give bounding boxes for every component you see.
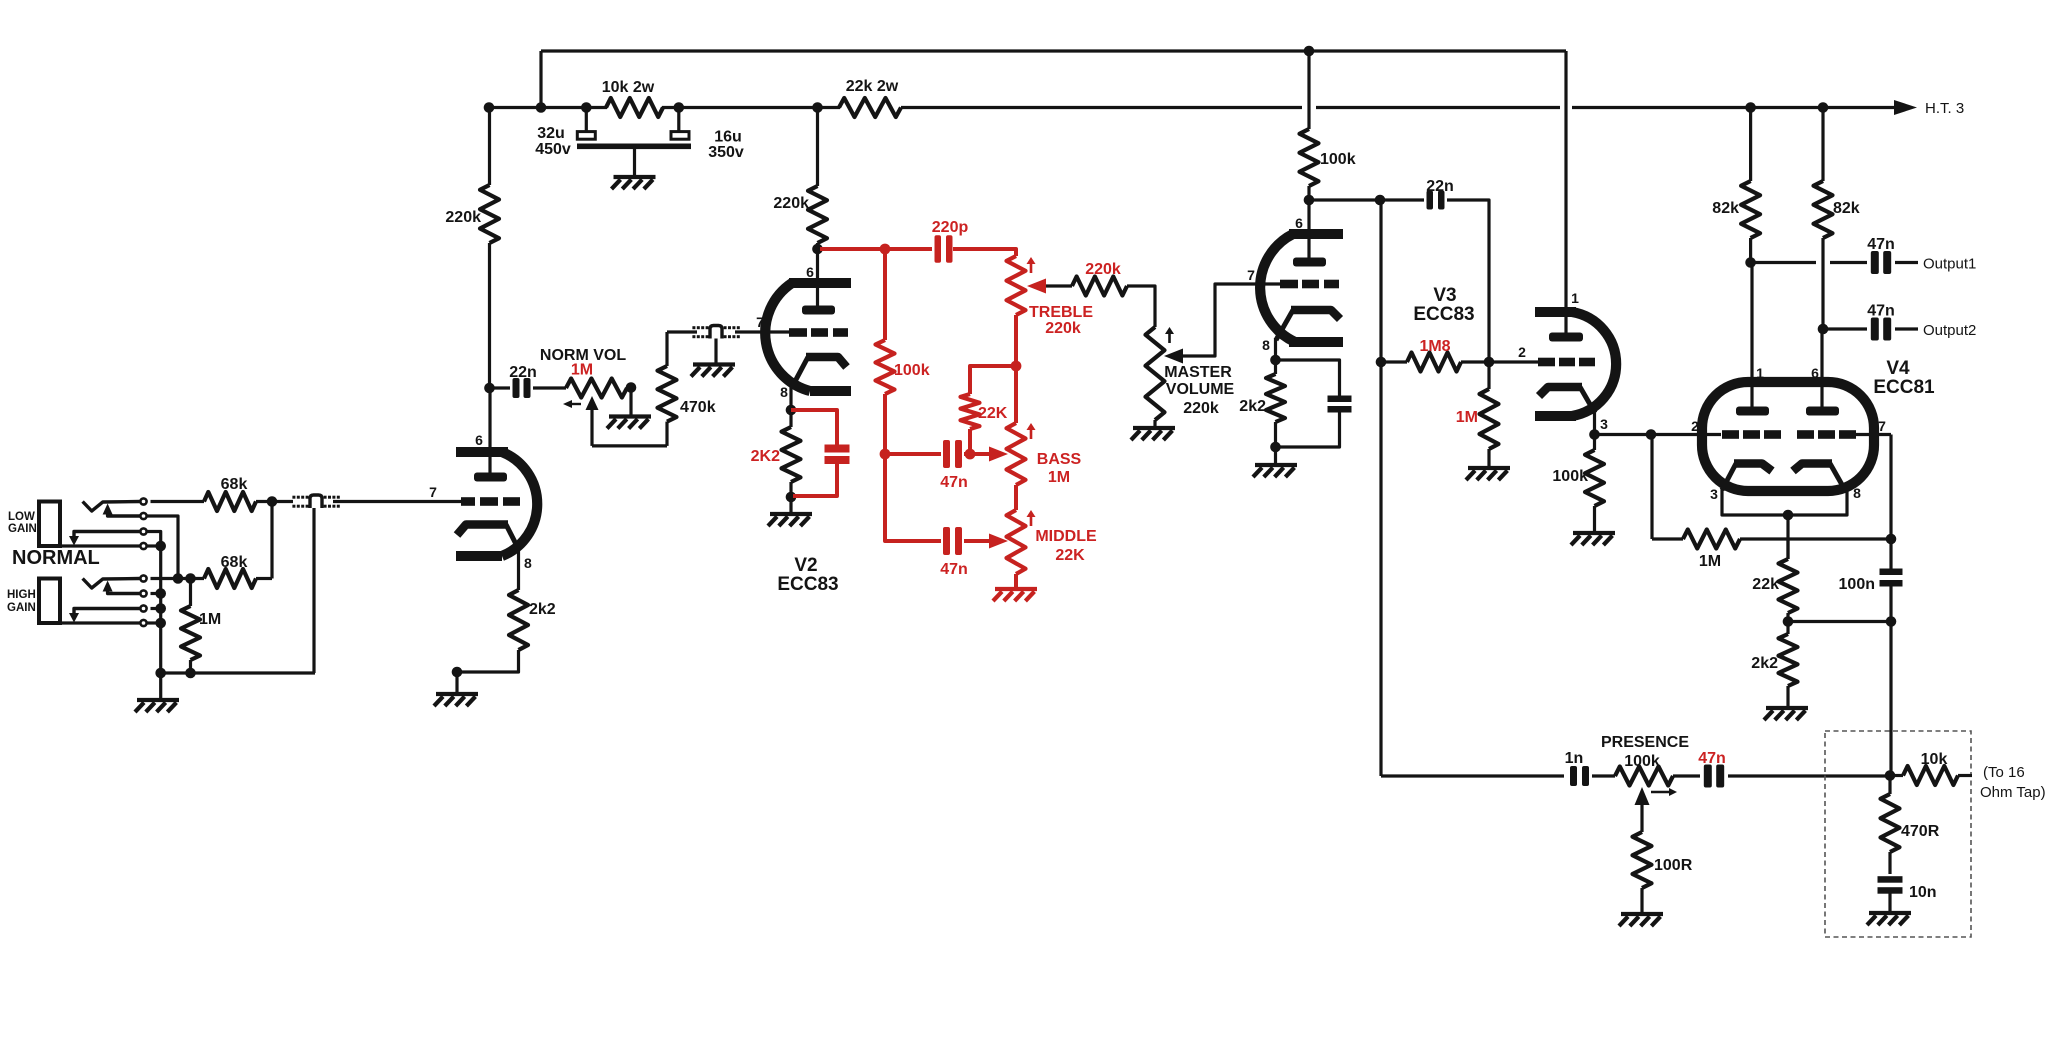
potentiometer PRESENCE 100k (1615, 767, 1673, 786)
wire (high tip row) (151, 577, 205, 580)
svg-text:2k2: 2k2 (529, 601, 556, 618)
jack make arrow (low) (103, 504, 113, 515)
svg-text:220k: 220k (445, 209, 481, 226)
treble wiper wire (1046, 284, 1072, 287)
node (high shunt bus) (155, 603, 166, 614)
svg-text:470k: 470k (680, 399, 716, 416)
resistor 470k (grid leak) (658, 366, 677, 422)
wire (low shunt down) (148, 532, 161, 547)
wire (47n to middle arrow) (964, 539, 990, 543)
node (32u tap) (581, 102, 592, 113)
svg-text:100k: 100k (1320, 151, 1356, 168)
node (sleeve bus top) (155, 541, 166, 552)
svg-text:450v: 450v (535, 141, 571, 158)
jack shunt arrow (high) (74, 609, 140, 614)
wire (10n ground lead) (1888, 891, 1891, 913)
svg-text:68k: 68k (221, 476, 248, 493)
potentiometer BASS 1M (1007, 423, 1026, 485)
resistor 100k (tone) (876, 340, 895, 394)
wire (cathode bracket) (1722, 489, 1847, 515)
resistor 100R (1633, 832, 1652, 888)
triode V3b envelope (1535, 312, 1576, 416)
V4 anode 2 (1806, 407, 1839, 416)
terminal (low sleeve) (140, 543, 146, 549)
jack tip spring (high) (83, 579, 140, 589)
svg-text:PRESENCE: PRESENCE (1601, 734, 1689, 751)
svg-text:3: 3 (1600, 416, 1608, 432)
wire (220k to MV pot) (1127, 286, 1155, 327)
jack body LOW GAIN (39, 502, 60, 547)
svg-text:6: 6 (475, 432, 483, 448)
resistor 82k (output1) (1741, 181, 1760, 238)
svg-text:350v: 350v (708, 144, 744, 161)
dashed box (speaker tap network) (1825, 731, 1971, 937)
wire (wiper to 470k) (592, 444, 667, 447)
wire (22K bottom) (968, 429, 972, 454)
wire (V3a anode to 22n) (1309, 198, 1380, 201)
node (treble/bass node) (1011, 361, 1022, 372)
wire (low sleeve bus) (148, 544, 161, 547)
svg-text:22k 2w: 22k 2w (846, 78, 899, 95)
wire (V3a bypass bottom) (1276, 412, 1340, 447)
wire (82k left) (1749, 108, 1752, 182)
svg-text:6: 6 (806, 264, 814, 280)
svg-text:22K: 22K (978, 405, 1008, 422)
svg-text:100R: 100R (1654, 857, 1693, 874)
V3a grid (1280, 280, 1298, 289)
svg-text:2K2: 2K2 (751, 448, 780, 465)
wire (output1 lead) (1751, 261, 1816, 264)
svg-text:1M8: 1M8 (1419, 338, 1450, 355)
node (high make bus) (155, 588, 166, 599)
ground (filter caps) (614, 175, 656, 179)
capacitor 100n (1880, 569, 1903, 576)
wire (H.T. rail) (489, 106, 607, 109)
bass wiper arrow (989, 447, 1008, 462)
wire (47n to bass arrow) (964, 452, 990, 456)
wire (mv wiper to V3a grid) (1183, 284, 1280, 356)
V2 anode (802, 306, 835, 315)
resistor 470R (1888, 776, 1891, 795)
svg-text:47n: 47n (1867, 236, 1895, 253)
terminal (low make) (140, 513, 146, 519)
svg-text:100k: 100k (894, 362, 930, 379)
wire (220p to treble) (953, 249, 1016, 256)
V2 cathode (806, 357, 847, 367)
svg-text:ECC83: ECC83 (777, 574, 838, 595)
wire (V3b to V4 grid) (1595, 433, 1722, 436)
resistor 2k2 (V3a cathode) (1274, 360, 1277, 374)
wire (to 220p) (885, 247, 932, 251)
terminal (high sleeve) (140, 620, 146, 626)
wire (node to 22K) (970, 366, 1016, 394)
node (1M to grid2 rail) (1886, 534, 1897, 545)
node (22k/220k junction) (812, 102, 823, 113)
wire (treble to bass pot) (1014, 366, 1018, 423)
svg-text:7: 7 (1247, 267, 1255, 283)
capacitor 16u 350v (677, 108, 680, 133)
svg-text:GAIN: GAIN (8, 523, 37, 535)
svg-text:V2: V2 (794, 555, 817, 576)
wire (47n bass lead) (885, 452, 941, 456)
terminal (high tip) (140, 575, 146, 581)
wire (grid2 rail down) (1889, 585, 1892, 776)
wire (47n to tap node) (1728, 774, 1889, 777)
svg-text:22n: 22n (509, 364, 537, 381)
ground (input jacks) (137, 698, 179, 702)
wire (output2 tail) (1895, 327, 1918, 330)
wire (V3b anode lead) (1564, 51, 1567, 334)
wire (link2 ground drop) (714, 339, 717, 365)
wire (100k to 47n node) (883, 394, 887, 454)
node (22k bottom) (1783, 616, 1794, 627)
ground (presence) (1621, 912, 1663, 916)
svg-text:470R: 470R (1901, 823, 1940, 840)
ground (V2 grid link) (693, 362, 735, 366)
svg-text:220k: 220k (773, 195, 809, 212)
wire (high shunt) (151, 607, 162, 610)
ground (V1 cathode) (436, 692, 478, 696)
resistor 100k (V3b cathode) (1593, 435, 1596, 451)
V3b cathode (1539, 387, 1582, 396)
svg-text:Output2: Output2 (1923, 322, 1976, 339)
wire (filter cap ground lead) (633, 149, 636, 177)
svg-text:32u: 32u (537, 125, 565, 142)
wire (V1 cathode lead) (517, 544, 520, 590)
svg-text:6: 6 (1811, 365, 1819, 381)
ground (V3b cathode) (1573, 531, 1615, 535)
arrow (mv cw) (1168, 330, 1171, 343)
jack sleeve wire (low) (60, 544, 140, 547)
V4 envelope (1702, 382, 1874, 491)
wire (left rail to middle 47n) (885, 454, 941, 541)
wire (NFB rail) (1379, 200, 1382, 776)
terminal (low tip) (140, 498, 146, 504)
svg-text:HIGH: HIGH (7, 589, 36, 601)
wire (V4 grid right) (1841, 433, 1891, 436)
svg-text:100n: 100n (1839, 576, 1875, 593)
jack body HIGH GAIN (39, 579, 60, 624)
wire (V3b cathode lead) (1593, 411, 1596, 435)
ground (norm vol) (609, 414, 651, 418)
svg-text:3: 3 (1710, 486, 1718, 502)
svg-text:1M: 1M (1699, 553, 1721, 570)
wire (V3b grid lead) (1489, 360, 1538, 363)
svg-text:220k: 220k (1085, 261, 1121, 278)
svg-text:10k: 10k (1921, 751, 1948, 768)
node (bass 47n node) (880, 449, 891, 460)
wire (V3a cathode lead) (1274, 338, 1277, 360)
svg-text:NORMAL: NORMAL (12, 547, 100, 569)
svg-text:47n: 47n (1867, 303, 1895, 320)
svg-text:V3: V3 (1433, 285, 1456, 306)
resistor 82k (output2) (1814, 181, 1833, 238)
svg-text:6: 6 (1295, 215, 1303, 231)
node (high tip / low make) (173, 573, 184, 584)
svg-text:10k 2w: 10k 2w (602, 79, 655, 96)
wire (V1 cathode to ground) (457, 650, 519, 694)
wire (link to V1 grid) (333, 500, 461, 503)
terminal (high shunt) (140, 605, 146, 611)
jack sleeve wire (high) (60, 621, 140, 624)
resistor 10k (NFB) (1890, 774, 1903, 777)
svg-text:MIDDLE: MIDDLE (1035, 528, 1097, 545)
resistor 220k (treble to MV) (1072, 277, 1127, 296)
wire (V4 anode 2 lead) (1820, 329, 1823, 411)
capacitor 220p (935, 235, 942, 263)
node (100n bottom rail) (1886, 616, 1897, 627)
node (1M top) (185, 573, 196, 584)
wire (bass to middle) (1014, 485, 1018, 510)
svg-text:82k: 82k (1712, 200, 1739, 217)
wire (low make to high tip) (148, 516, 179, 579)
wire (470k top) (665, 332, 668, 366)
treble wiper arrow (1027, 279, 1046, 294)
svg-text:TREBLE: TREBLE (1029, 304, 1093, 321)
V1 cathode (457, 525, 508, 536)
ground (V3a cathode) (1255, 463, 1297, 467)
svg-text:ECC83: ECC83 (1413, 304, 1474, 325)
svg-text:100k: 100k (1624, 753, 1660, 770)
terminal (high make) (140, 590, 146, 596)
capacitor 22n (coupling) (513, 378, 520, 398)
node (V2 cathode top) (786, 405, 797, 416)
ground (V3b grid leak) (1468, 466, 1510, 470)
node (16u tap) (674, 102, 685, 113)
presence wiper arrow (1635, 787, 1650, 805)
node (82k right top) (1818, 102, 1829, 113)
ground (master volume) (1133, 426, 1175, 430)
terminal (low shunt) (140, 528, 146, 534)
resistor 2k2 (V1 cathode) (509, 590, 528, 650)
capacitor V3a bypass (1328, 396, 1352, 403)
node (V3a anode) (1304, 195, 1315, 206)
svg-text:MASTER: MASTER (1164, 364, 1232, 381)
wire (high make) (151, 592, 162, 595)
svg-text:(To 16: (To 16 (1983, 764, 2025, 781)
triode V2 envelope (789, 283, 851, 391)
resistor 10k 2w (606, 98, 663, 117)
node (V2 cathode bottom) (786, 492, 797, 503)
node (norm vol cold end) (626, 382, 637, 393)
svg-text:1M: 1M (199, 611, 221, 628)
wire (V3a plate) (1307, 51, 1310, 129)
arrow ccw hint (566, 403, 581, 405)
wire (low tip row) (151, 500, 205, 503)
node (rail / top feed) (536, 102, 547, 113)
link (V2 grid) (706, 326, 709, 329)
wire (pot to ground dot) (627, 386, 631, 389)
svg-text:VOLUME: VOLUME (1166, 381, 1235, 398)
wire (middle to ground) (1014, 574, 1018, 589)
mv wiper arrow (1164, 349, 1183, 364)
svg-text:2k2: 2k2 (1239, 398, 1266, 415)
wire (V2 bypass top) (791, 410, 837, 446)
V4 cathode 2 (1793, 464, 1832, 472)
svg-text:Ohm Tap): Ohm Tap) (1980, 784, 2046, 801)
resistor 1M (input) (189, 579, 192, 607)
V4 cathode 1 (1734, 464, 1772, 472)
wire (22n to grid node) (1447, 200, 1489, 362)
triode V3a envelope (1289, 234, 1343, 342)
wire (left tone rail top) (883, 249, 887, 340)
resistor 2k2 (V4 bias lower) (1786, 622, 1789, 635)
svg-text:47n: 47n (940, 561, 968, 578)
resistor 22k 2w (839, 98, 901, 117)
wire (high sleeve) (148, 621, 162, 624)
middle wiper arrow (989, 534, 1008, 549)
V3a cathode (1291, 310, 1340, 319)
resistor 68k (low input) (204, 492, 256, 511)
svg-text:220k: 220k (1045, 320, 1081, 337)
node (82k left top) (1745, 102, 1756, 113)
V4 anode 1 (1736, 407, 1769, 416)
wire (22n lead) (490, 386, 511, 389)
svg-text:22K: 22K (1055, 547, 1085, 564)
arrow (middle cw) (1030, 513, 1033, 526)
svg-text:10n: 10n (1909, 884, 1937, 901)
node (NFB tap) (1885, 770, 1896, 781)
node (cathode bracket center) (1783, 510, 1794, 521)
wire (22k to 100n rail) (1788, 620, 1891, 623)
svg-text:1: 1 (1756, 365, 1764, 381)
wire (presence to 47n) (1673, 774, 1700, 777)
wire (V2 plate chain) (816, 108, 819, 187)
svg-text:V4: V4 (1886, 358, 1910, 379)
V4 grid (1722, 430, 1739, 439)
wire (norm vol ground lead) (629, 388, 632, 417)
wire (1n to presence) (1592, 774, 1615, 777)
wire (V2 cathode ground lead) (789, 497, 792, 514)
node (V3b grid node) (1484, 357, 1495, 368)
capacitor 47n (output2) (1871, 318, 1879, 341)
svg-text:220k: 220k (1183, 400, 1219, 417)
svg-text:1: 1 (1571, 290, 1579, 306)
V1 anode (474, 473, 507, 482)
V2 grid (789, 328, 807, 337)
jack shunt arrow (low) (74, 532, 140, 537)
node (bus 1M) (185, 668, 196, 679)
node (V3a cathode top) (1270, 355, 1281, 366)
wire (V2 bypass bottom) (793, 463, 837, 496)
triode V1 envelope (456, 452, 508, 556)
wire (link to V2 grid) (735, 330, 789, 333)
wire (tone feed) (820, 247, 885, 251)
wire (output1 tail) (1895, 261, 1918, 264)
svg-text:BASS: BASS (1037, 451, 1082, 468)
capacitor 47n (NFB) (1704, 765, 1712, 788)
svg-text:2k2: 2k2 (1751, 655, 1778, 672)
wire (82k right) (1821, 108, 1824, 182)
svg-text:1M: 1M (571, 362, 593, 379)
arrow (bass cw) (1030, 426, 1033, 439)
capacitor 47n (middle) (943, 527, 950, 555)
capacitor V2 cathode bypass (825, 445, 850, 453)
svg-text:8: 8 (780, 384, 788, 400)
svg-text:1n: 1n (1565, 750, 1584, 767)
svg-text:2: 2 (1518, 344, 1526, 360)
node (V3b cathode) (1589, 429, 1600, 440)
capacitor 47n (output1) (1871, 251, 1879, 274)
svg-text:82k: 82k (1833, 200, 1860, 217)
wire (mv ground lead) (1153, 420, 1156, 428)
node (rail left end) (484, 102, 495, 113)
wire (ground bus) (161, 671, 315, 674)
resistor 220k (V1 plate) (480, 185, 499, 243)
arrow (presence cw) (1651, 791, 1669, 793)
svg-text:8: 8 (524, 555, 532, 571)
V3b anode (1549, 333, 1583, 342)
arrow (treble cw) (1030, 260, 1033, 273)
svg-text:Output1: Output1 (1923, 256, 1976, 273)
V3a anode (1293, 258, 1326, 267)
resistor 220k (V2 plate) (808, 186, 827, 243)
svg-text:100k: 100k (1552, 468, 1588, 485)
resistor 2K2 (V2 cathode) (789, 410, 792, 427)
node (high sleeve bus) (155, 618, 166, 629)
node (V4 bias tap) (1646, 429, 1657, 440)
svg-text:ECC81: ECC81 (1873, 377, 1935, 398)
wire (V1 plate load chain) (488, 108, 491, 186)
node (1M8 left) (1376, 357, 1387, 368)
capacitor 1n (1570, 766, 1577, 786)
node (NFB rail top) (1375, 195, 1386, 206)
ground (speaker tap) (1869, 911, 1911, 915)
capacitor common plate (577, 144, 691, 150)
arrow H.T. 3 (1894, 100, 1917, 115)
node (tone input) (880, 244, 891, 255)
ground (tone stack) (995, 587, 1037, 591)
wire (link1 ground drop) (312, 508, 315, 673)
node (V3a cathode bottom) (1270, 442, 1281, 453)
resistor 100k (V3a plate) (1300, 129, 1319, 186)
ground (V4 bias) (1766, 706, 1808, 710)
potentiometer TREBLE 220k (1007, 256, 1026, 315)
svg-text:22k: 22k (1752, 576, 1779, 593)
wire (top B+ feed) (541, 49, 1566, 52)
resistor 1M8 (1381, 360, 1407, 363)
svg-text:H.T. 3: H.T. 3 (1925, 100, 1964, 117)
svg-text:22n: 22n (1426, 178, 1454, 195)
svg-text:68k: 68k (221, 554, 248, 571)
node (V1 ground corner) (452, 667, 463, 678)
node (68k junction) (267, 496, 278, 507)
link (input) (306, 496, 309, 499)
potentiometer MIDDLE 22K (1007, 510, 1026, 574)
potentiometer NORM VOL 1M (566, 379, 627, 398)
svg-text:1M: 1M (1048, 469, 1070, 486)
resistor 1M (V3b grid) (1487, 362, 1490, 389)
svg-text:8: 8 (1853, 485, 1861, 501)
wire (V3a bypass top) (1276, 360, 1340, 396)
wire (output2 lead) (1823, 327, 1867, 330)
wire (22n to pot) (533, 386, 566, 389)
potentiometer MASTER VOLUME 220k (1146, 327, 1165, 420)
jack tip spring (low) (83, 502, 140, 512)
svg-text:220p: 220p (932, 219, 969, 236)
ground (V2 cathode) (770, 512, 812, 516)
resistor 22K (slope) (961, 394, 980, 429)
capacitor 10n (1878, 876, 1903, 883)
node (output1 node) (1745, 257, 1756, 268)
wire (V2 cathode lead) (789, 384, 792, 410)
norm vol wiper arrow (586, 396, 599, 410)
wire (100R ground lead) (1640, 888, 1643, 914)
node (output2 node) (1818, 324, 1829, 335)
resistor 68k (high input) (204, 569, 256, 588)
V3b grid (1538, 358, 1555, 367)
wire (22n feed) (1380, 198, 1424, 201)
